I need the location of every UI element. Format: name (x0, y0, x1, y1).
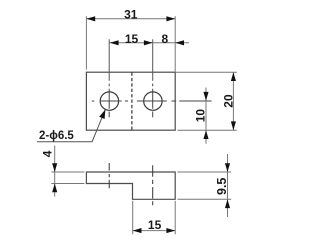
leader line (37, 110, 105, 142)
extension line left (31) (85, 16, 87, 69)
svg-text:31: 31 (124, 7, 138, 21)
hole H1 (100, 92, 118, 110)
arrow 10 bottom (outside, pointing up) (203, 130, 208, 139)
hole H1 vertical centerline (108, 84, 110, 118)
side view centerline hole2 (152, 165, 154, 205)
extension line right (31/8) (174, 16, 176, 72)
dim line 8 with tail (153, 42, 189, 44)
extension top edge right (176, 71, 237, 73)
arrow 15 left (110, 40, 119, 45)
arrow 15b left (133, 228, 142, 233)
arrow 8 right (outside) (175, 40, 184, 45)
svg-text:4: 4 (40, 150, 54, 157)
horizontal centerline through holes (92, 100, 212, 102)
extension bottom-15 left (132, 201, 134, 234)
arrow 9.5 bottom (outside, pointing up) (225, 199, 230, 208)
svg-text:15: 15 (125, 32, 139, 46)
svg-text:15: 15 (148, 218, 162, 232)
bend hidden line (dashed) (131, 73, 133, 131)
extension bottom-15 right (174, 201, 176, 234)
arrow 15b right (166, 228, 175, 233)
side view centerline hole1 (108, 163, 110, 188)
extension 4-left top (51, 171, 84, 173)
dim line 31 (86, 18, 175, 20)
arrow 31 right (166, 16, 175, 21)
svg-text:9.5: 9.5 (215, 178, 229, 195)
extension line hole2 top (152, 39, 154, 81)
top view outline (86, 72, 175, 130)
extension 4-left bottom (51, 183, 84, 185)
dim line 20 (232, 72, 234, 130)
arrow 31 left (86, 16, 95, 21)
leader arrowhead (99, 110, 105, 119)
extension 9.5 bottom (178, 198, 232, 200)
side view outline (86, 172, 175, 199)
hole H2 vertical centerline (152, 84, 154, 118)
dim line 4 (54, 146, 56, 197)
arrow 20 top (231, 72, 236, 81)
arrow 15 right / 8 left (144, 40, 153, 45)
extension bottom edge right (178, 129, 237, 131)
extension 9.5 top (178, 171, 232, 173)
arrow 4 top (outside, pointing down) (52, 163, 57, 172)
arrow 10 top (outside, pointing down) (203, 92, 208, 101)
extension line hole1 top (108, 39, 110, 81)
svg-text:20: 20 (221, 94, 235, 108)
dim line 15 top (110, 42, 153, 44)
arrow 20 bottom (231, 121, 236, 130)
svg-text:10: 10 (194, 109, 208, 123)
dim line 9.5 (227, 154, 229, 217)
arrow 9.5 top (outside, pointing down) (225, 163, 230, 172)
dim line 10 (205, 88, 207, 144)
hole H2 (144, 92, 162, 110)
svg-text:2-ϕ6.5: 2-ϕ6.5 (39, 130, 74, 142)
svg-text:8: 8 (161, 32, 168, 46)
arrow 4 bottom (outside, pointing up) (52, 184, 57, 193)
dim line 15 bottom (133, 230, 176, 232)
